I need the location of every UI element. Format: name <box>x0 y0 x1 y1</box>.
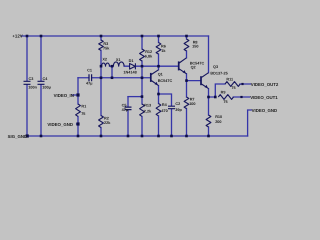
svg-text:22k: 22k <box>104 121 111 125</box>
svg-text:200: 200 <box>215 120 221 124</box>
svg-text:VIDEO_OUT2: VIDEO_OUT2 <box>251 82 279 87</box>
svg-text:6,8k: 6,8k <box>145 55 153 59</box>
svg-text:1N4148: 1N4148 <box>123 70 136 74</box>
svg-text:C5: C5 <box>122 103 127 107</box>
svg-text:VIDEO_GND: VIDEO_GND <box>252 108 278 113</box>
svg-text:Q1: Q1 <box>158 72 163 76</box>
svg-text:R12: R12 <box>145 50 152 54</box>
svg-text:75k: 75k <box>103 47 110 51</box>
svg-text:R11: R11 <box>226 78 233 82</box>
svg-text:Q3: Q3 <box>213 65 218 69</box>
svg-text:R10: R10 <box>215 115 222 119</box>
svg-text:75: 75 <box>81 112 85 116</box>
svg-text:47µ: 47µ <box>86 82 92 86</box>
svg-text:+12V: +12V <box>12 34 22 39</box>
svg-text:39p: 39p <box>175 108 182 112</box>
svg-text:VIDEO_OUT1: VIDEO_OUT1 <box>250 95 278 100</box>
svg-text:470: 470 <box>161 109 167 113</box>
svg-text:75: 75 <box>231 86 235 90</box>
svg-text:R1: R1 <box>81 105 86 109</box>
svg-text:C1: C1 <box>87 69 92 73</box>
svg-text:R2: R2 <box>104 116 109 120</box>
svg-text:100: 100 <box>189 102 195 106</box>
svg-text:47µ: 47µ <box>122 108 128 112</box>
svg-text:R9: R9 <box>221 91 226 95</box>
svg-text:R3: R3 <box>103 42 108 46</box>
svg-text:VIDEO_GND: VIDEO_GND <box>47 122 73 127</box>
svg-text:D1: D1 <box>129 59 134 63</box>
svg-text:100µ: 100µ <box>42 85 51 89</box>
svg-text:R7: R7 <box>190 97 195 101</box>
svg-text:75: 75 <box>223 100 227 104</box>
svg-text:Q2: Q2 <box>191 66 196 70</box>
svg-text:100n: 100n <box>28 85 37 89</box>
svg-text:BD137-25: BD137-25 <box>210 72 227 76</box>
svg-text:R6: R6 <box>161 44 166 48</box>
svg-text:X1: X1 <box>116 58 121 62</box>
svg-text:R13: R13 <box>144 103 151 107</box>
svg-text:C2: C2 <box>175 102 180 106</box>
svg-text:X2: X2 <box>102 58 107 62</box>
svg-text:VIDEO_IN: VIDEO_IN <box>54 93 74 98</box>
svg-text:SIG_GND: SIG_GND <box>8 134 28 139</box>
svg-text:BC547C: BC547C <box>158 79 173 83</box>
svg-text:150: 150 <box>192 45 198 49</box>
svg-text:C3: C3 <box>29 77 34 81</box>
svg-text:2,2k: 2,2k <box>144 109 152 113</box>
